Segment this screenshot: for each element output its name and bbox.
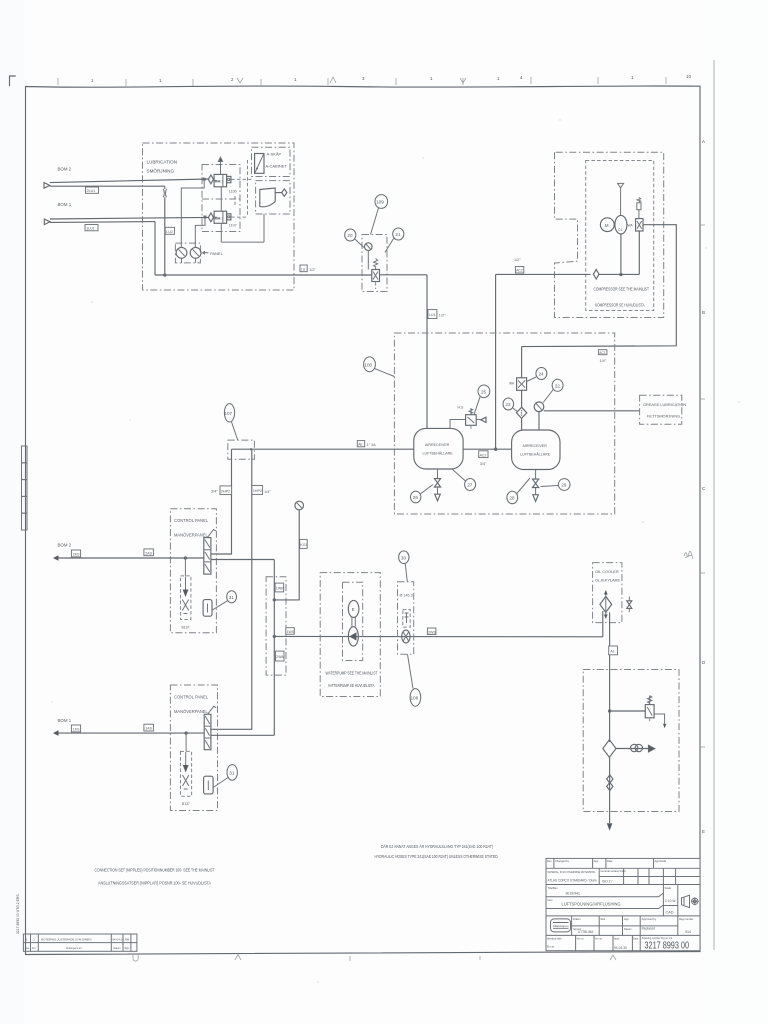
control panel 2 boundary	[170, 685, 217, 811]
orifice inner dashed box	[403, 610, 410, 628]
lubricator 1107	[208, 211, 231, 223]
svg-text:1/2": 1/2"	[439, 314, 446, 318]
left edge fold scale ladder	[22, 446, 28, 530]
pump motor E	[348, 600, 359, 617]
svg-text:Sign: Sign	[125, 947, 130, 950]
feed wire to receiver 1	[254, 448, 413, 450]
svg-text:1100: 1100	[229, 190, 237, 194]
balloon 30	[399, 551, 409, 582]
svg-text:LUFTBEHÅLLARE: LUFTBEHÅLLARE	[520, 452, 551, 457]
svg-text:1/2": 1/2"	[309, 268, 316, 272]
svg-text:Date: Date	[607, 859, 613, 863]
atlas copco logo	[551, 919, 571, 932]
vent mark X	[218, 157, 222, 174]
svg-text:30: 30	[401, 555, 407, 560]
svg-text:AIRRECEIVER: AIRRECEIVER	[523, 444, 548, 448]
svg-text:LUBRICATION: LUBRICATION	[147, 160, 178, 165]
svg-text:Replaced: Replaced	[642, 927, 656, 931]
svg-text:OIL COOLER: OIL COOLER	[595, 569, 619, 574]
safety valve	[637, 198, 641, 219]
svg-text:10: 10	[686, 74, 692, 79]
svg-text:KG1: KG1	[300, 543, 307, 547]
hand valve CP2	[204, 706, 216, 749]
CP2 valve to WA riser	[211, 734, 274, 736]
svg-text:Date: Date	[633, 937, 639, 940]
water pump text	[326, 671, 378, 689]
label 1100	[229, 190, 237, 194]
BOM 2 wire pair	[50, 179, 209, 186]
svg-text:AIRRECEIVER: AIRRECEIVER	[425, 443, 450, 447]
discharge valve WA	[628, 219, 644, 231]
CP2 filter drop	[185, 733, 187, 751]
svg-text:A-CABINET: A-CABINET	[266, 164, 288, 169]
junction box 107	[228, 440, 255, 459]
svg-text:Identical with: Identical with	[547, 937, 562, 940]
lubricator sub-box	[202, 165, 240, 232]
BOM 1 supply arrow	[44, 202, 71, 225]
title row 1 headers	[547, 859, 667, 863]
svg-text:Ø 145,3: Ø 145,3	[400, 594, 413, 598]
svg-text:31: 31	[229, 595, 235, 600]
svg-text:CAD: CAD	[666, 910, 674, 914]
svg-text:24: 24	[539, 372, 545, 377]
A-cabinet box	[252, 147, 291, 176]
balloon 27	[452, 469, 476, 491]
compressor text	[594, 287, 650, 308]
svg-text:WA: WA	[509, 382, 515, 386]
svg-text:Title/Ben: Title/Ben	[548, 886, 559, 890]
svg-text:H.S: H.S	[458, 406, 465, 410]
panel label with arrow	[203, 251, 224, 256]
balloon 100	[364, 357, 395, 377]
label B137	[182, 626, 190, 630]
inline filter 23	[516, 407, 526, 430]
orifice meter	[402, 630, 410, 643]
svg-text:A1: A1	[610, 650, 614, 654]
number row headers	[547, 937, 639, 948]
balloon 28	[507, 478, 530, 504]
water pump wire	[274, 635, 603, 637]
svg-text:MANÖVERPANEL: MANÖVERPANEL	[174, 709, 209, 714]
svg-text:1/4": 1/4"	[600, 359, 607, 363]
BOM 2 outlet arrow	[53, 543, 72, 561]
svg-text:Res: Res	[601, 917, 606, 921]
svg-text:Rev: Rev	[547, 859, 552, 863]
svg-text:Datum: Datum	[114, 947, 121, 950]
svg-text:Ers av: Ers av	[547, 945, 555, 948]
svg-text:B137: B137	[182, 626, 190, 630]
label 1KS	[71, 725, 80, 732]
intake funnel	[618, 183, 624, 215]
relief valve branch	[609, 710, 646, 712]
connection set note text	[95, 868, 215, 886]
svg-text:B137: B137	[182, 802, 190, 806]
svg-text:A: A	[702, 139, 705, 144]
label 1WR	[275, 583, 284, 592]
orifice boundary box	[398, 582, 414, 655]
svg-text:BOM 2: BOM 2	[58, 167, 72, 172]
svg-text:1107: 1107	[229, 224, 237, 228]
svg-text:Drawing number Fig no 1/1: Drawing number Fig no 1/1	[642, 937, 673, 940]
svg-text:AC2: AC2	[516, 269, 523, 273]
riser to air receiver 1	[426, 275, 428, 429]
balloon 21	[385, 228, 404, 253]
svg-text:9015/941: 9015/941	[566, 892, 581, 896]
svg-text:3217 8993 00 UTG.2 ERS.: 3217 8993 00 UTG.2 ERS.	[16, 893, 20, 934]
lubrication unit boundary box	[143, 143, 295, 290]
svg-text:Scale: Scale	[665, 886, 672, 890]
svg-text:29: 29	[561, 483, 567, 488]
balloon 23	[503, 398, 517, 411]
receiver assembly boundary box 100	[394, 333, 614, 514]
accessory A CP2	[204, 776, 214, 794]
dashed links to cabinet	[231, 160, 251, 217]
receiver 2 drain valve	[533, 470, 539, 502]
balloon 20	[345, 229, 364, 248]
control panel 1 boundary	[170, 509, 216, 633]
unloader valve on receiver 1	[450, 409, 486, 431]
svg-text:AC1: AC1	[599, 351, 606, 355]
svg-text:2WS: 2WS	[428, 630, 436, 634]
svg-text:AtlasCopco: AtlasCopco	[553, 924, 569, 928]
svg-text:2KS: 2KS	[73, 553, 80, 557]
svg-text:RM: RM	[125, 938, 130, 942]
drawing frame border	[26, 60, 715, 955]
svg-text:COMPRESSOR SEE THE MAINLIST: COMPRESSOR SEE THE MAINLIST	[594, 287, 650, 292]
bottom edge ticks and marks	[133, 955, 616, 962]
left edge rotated registry text	[16, 893, 20, 934]
compressor inner dashed box	[586, 161, 654, 311]
svg-text:CONTROL PANEL: CONTROL PANEL	[174, 518, 209, 523]
wire to BOM 2	[59, 557, 204, 559]
svg-text:2HP2: 2HP2	[221, 489, 230, 493]
CP1 filter drop	[184, 558, 186, 576]
balloon 31 CP2	[213, 765, 237, 788]
cooler riser from pump line	[602, 611, 604, 637]
svg-text:21: 21	[395, 232, 401, 237]
svg-text:E: E	[352, 607, 355, 612]
name row texts	[573, 917, 694, 931]
drop to control panel 2	[211, 449, 252, 729]
svg-text:ISO 2 /: ISO 2 /	[602, 879, 612, 883]
compressor suction wire	[496, 273, 591, 275]
CP1 valve to WR riser	[211, 559, 274, 561]
label 2KS	[71, 550, 80, 557]
hand valve CP1	[204, 530, 216, 575]
water pump	[348, 627, 358, 646]
svg-text:109: 109	[376, 200, 384, 205]
water pump inner box	[343, 582, 363, 660]
svg-text:1LU1: 1LU1	[86, 227, 95, 231]
svg-text:AC3: AC3	[480, 453, 487, 457]
svg-text:General surface finish: General surface finish	[601, 869, 627, 873]
panel gauges box	[175, 243, 201, 263]
bottom outlet arrow	[607, 823, 613, 830]
svg-text:LU: LU	[301, 267, 306, 271]
water pump boundary box	[320, 573, 380, 697]
balloon 109	[371, 195, 388, 235]
svg-text:25: 25	[481, 389, 487, 394]
svg-text:GREASE LUBRICATION: GREASE LUBRICATION	[643, 402, 686, 407]
lubrication label	[147, 160, 178, 174]
CP1 filter dashed box	[181, 576, 191, 620]
pressure gauge KG1	[274, 501, 303, 600]
svg-text:2AS: 2AS	[145, 551, 152, 555]
receiver 2 inlet valve 24	[509, 378, 527, 391]
svg-text:Inv no: Inv no	[595, 937, 602, 940]
material cell	[548, 868, 600, 884]
WR distribution boundary box	[266, 577, 286, 675]
wire to BOM 1	[59, 732, 205, 734]
number row cells	[576, 935, 641, 950]
lubricator 1100	[208, 174, 231, 186]
svg-text:100: 100	[364, 362, 372, 367]
regulator valve	[372, 259, 380, 290]
motor M1	[600, 218, 615, 232]
top edge zone numbers	[91, 74, 692, 83]
drop wire from BOM1 pair	[154, 222, 156, 275]
svg-text:Inv no: Inv no	[577, 937, 584, 940]
svg-text:WATERPUMP SEE THE MAINLIST: WATERPUMP SEE THE MAINLIST	[326, 671, 378, 676]
svg-text:CONTROL PANEL: CONTROL PANEL	[174, 695, 209, 700]
corner crop mark top-left	[10, 76, 16, 86]
balloon 31 CP1	[212, 591, 237, 611]
svg-text:BOM 1: BOM 1	[58, 202, 72, 207]
label 2AS	[144, 549, 154, 556]
balloon 108	[408, 654, 421, 706]
cooler outlet drop	[609, 612, 611, 742]
gauge risers	[221, 187, 264, 242]
shutoff double diamond	[607, 775, 613, 791]
svg-text:SMÖRJNING: SMÖRJNING	[147, 168, 175, 174]
drawing number	[642, 937, 689, 952]
svg-text:3/4": 3/4"	[480, 462, 487, 466]
svg-text:26: 26	[413, 495, 419, 500]
svg-text:BOM 2: BOM 2	[58, 543, 72, 548]
main air wire to regulator	[155, 274, 372, 276]
svg-text:22: 22	[555, 383, 561, 388]
svg-text:20: 20	[347, 233, 353, 238]
compressor outlet run	[522, 225, 677, 347]
svg-text:B: B	[702, 310, 705, 315]
air receiver 1	[414, 428, 463, 469]
regulator boundary box	[362, 235, 387, 292]
svg-text:M: M	[605, 223, 609, 228]
label AT1	[609, 646, 618, 655]
hose note text	[375, 844, 499, 859]
svg-text:2LU1: 2LU1	[87, 189, 96, 193]
relief valve	[645, 696, 666, 729]
balloon 24	[527, 368, 547, 382]
svg-text:PANEL: PANEL	[210, 251, 224, 256]
drop to control panel 1	[211, 449, 232, 554]
compressor boundary box with notch	[555, 152, 664, 317]
oil cooler boundary box	[593, 563, 622, 623]
label LU1 1/2 inch	[428, 310, 446, 319]
svg-text:Appr: Appr	[614, 937, 619, 940]
wire gauge to grease lubrication	[544, 410, 640, 412]
balloon 22	[543, 379, 563, 402]
heat exchanger diamond	[600, 590, 612, 619]
svg-text:914: 914	[685, 930, 691, 934]
grease lubrication box	[640, 395, 687, 424]
label KG1	[300, 539, 308, 548]
top fold marks	[237, 77, 466, 83]
check valve diamond lower	[603, 740, 616, 758]
label 1HP2 1/4 inch	[252, 486, 272, 495]
compressor drop pipe	[620, 234, 622, 276]
pencil scribble	[684, 551, 693, 559]
svg-text:1:10 W: 1:10 W	[665, 899, 676, 903]
svg-text:1HP2: 1HP2	[253, 489, 262, 493]
label AC1 1/4 inch	[598, 350, 607, 363]
svg-text:94-04-30: 94-04-30	[614, 946, 627, 950]
svg-text:1/4": 1/4"	[264, 490, 271, 494]
svg-text:Ant: Ant	[32, 947, 36, 950]
svg-text:OLJEKYLARE: OLJEKYLARE	[595, 578, 620, 583]
label 1107	[229, 224, 237, 228]
svg-text:1" 1A: 1" 1A	[367, 443, 377, 447]
svg-text:C1: C1	[618, 228, 622, 232]
label 1AS	[144, 724, 154, 731]
BOM 2 supply arrow	[44, 167, 72, 189]
svg-text:MANÖVERPANEL: MANÖVERPANEL	[174, 533, 209, 538]
CP2 filter dashed box	[181, 751, 192, 796]
lower hydraulic boundary box	[583, 670, 679, 812]
WR riser	[273, 560, 275, 736]
svg-text:94-04-26: 94-04-26	[112, 938, 124, 942]
name row cells	[572, 916, 678, 936]
svg-text:KOMPRESSOR SE HUVUDLISTA: KOMPRESSOR SE HUVUDLISTA	[595, 303, 645, 308]
wire check valve to discharge valve	[599, 231, 639, 274]
scale cells	[663, 885, 677, 916]
svg-text:3/4": 3/4"	[211, 489, 218, 493]
title block outline	[546, 858, 700, 950]
svg-text:VATTENPUMP SE HUVUDLISTA: VATTENPUMP SE HUVUDLISTA	[328, 683, 375, 688]
regulator gauge	[365, 243, 373, 270]
main drop continue	[609, 757, 611, 823]
BOM 1 outlet arrow	[53, 718, 72, 736]
label AC2 1/2 inch	[514, 258, 524, 273]
balloon 26	[411, 485, 434, 503]
label 2HP2 3/4 inch	[211, 486, 232, 495]
pump shaft	[352, 618, 355, 627]
drop wire from BOM2 pair	[164, 186, 166, 275]
svg-text:27: 27	[467, 483, 473, 488]
label 2WS	[427, 628, 436, 635]
svg-text:Approved by: Approved by	[642, 917, 657, 921]
air receiver 2	[512, 430, 560, 470]
label 2LU1	[86, 187, 99, 193]
svg-text:LU1: LU1	[429, 313, 435, 317]
pressure gauge 22	[534, 402, 544, 430]
svg-text:ANSLUTNINGSSATSER (NIPPLAR) PO: ANSLUTNINGSSATSER (NIPPLAR) POSNR.100- S…	[98, 881, 211, 886]
svg-text:1/2": 1/2"	[514, 258, 521, 262]
hose break symbol	[163, 189, 166, 197]
svg-text:Drawn: Drawn	[573, 917, 581, 921]
wire regulator to tank riser	[380, 274, 428, 276]
compressor ellipse C1	[615, 215, 627, 234]
oil reservoir box	[256, 181, 290, 214]
label B137 CP2	[182, 802, 190, 806]
label LU2	[165, 227, 174, 234]
surface finish cells	[599, 868, 700, 884]
svg-text:LU2: LU2	[166, 230, 172, 234]
svg-text:FETTSMÖRJNING: FETTSMÖRJNING	[647, 414, 680, 419]
BOM 1 wire pair	[50, 217, 209, 222]
accessory A CP1	[203, 600, 212, 617]
svg-text:31: 31	[229, 771, 235, 776]
svg-text:Ändringens art: Ändringens art	[66, 947, 82, 950]
svg-text:108: 108	[411, 696, 419, 701]
gauge 1 feed from BOM 2 line	[181, 178, 205, 247]
svg-text:Item: Item	[548, 898, 553, 902]
test point branch	[616, 744, 655, 752]
svg-text:A-SKÅP: A-SKÅP	[267, 152, 282, 157]
svg-text:1WR: 1WR	[276, 587, 284, 591]
label H.S	[458, 406, 465, 410]
svg-text:3217 8993 00: 3217 8993 00	[645, 941, 690, 952]
cooler vent valve	[627, 597, 632, 613]
check valve diamond	[593, 269, 599, 279]
gauge 2 feed from BOM 1 line	[195, 216, 206, 247]
svg-text:ATLAS COPCO STANDARD / Diam: ATLAS COPCO STANDARD / Diam	[548, 878, 597, 882]
svg-text:107: 107	[224, 411, 232, 416]
svg-text:NOTERING JUSTERADE SYM DIMEN: NOTERING JUSTERADE SYM DIMEN	[41, 938, 91, 942]
orifice bore label	[400, 594, 413, 598]
label 2WA	[276, 651, 285, 661]
wire AC1 down to valve 24	[521, 347, 523, 408]
title name cell	[546, 886, 663, 897]
balloon 29	[541, 479, 571, 491]
drawing title	[546, 898, 663, 909]
drop from compressor suction into receiver manifold	[495, 274, 497, 449]
balloon 25	[474, 385, 490, 415]
svg-text:1AS: 1AS	[145, 727, 152, 731]
svg-text:1WS: 1WS	[287, 630, 295, 634]
svg-text:LUFTBEHÅLLARE: LUFTBEHÅLLARE	[423, 451, 454, 456]
svg-text:App/Godk: App/Godk	[655, 859, 667, 863]
svg-text:CONNECTION SET (NIPPLES) POSIT: CONNECTION SET (NIPPLES) POSITIONNUMBER …	[95, 868, 215, 873]
top edge zone ticks	[58, 77, 666, 86]
svg-text:MATERIAL, IF NO OTHERWISE NOTE: MATERIAL, IF NO OTHERWISE NOTED/MTRL	[548, 870, 596, 874]
svg-text:E: E	[702, 829, 705, 834]
svg-text:1KS: 1KS	[73, 728, 80, 732]
label 1WS	[286, 628, 295, 635]
svg-text:Reg number: Reg number	[679, 917, 693, 921]
svg-text:23: 23	[505, 402, 511, 407]
label AE1 1 inch	[357, 441, 376, 448]
title row 1 cells	[554, 858, 654, 868]
svg-text:28: 28	[509, 496, 515, 501]
label 1LU1	[85, 225, 98, 231]
svg-text:App: App	[594, 859, 599, 863]
svg-text:WA: WA	[628, 224, 634, 228]
label LU3 1/2 inch	[300, 265, 316, 272]
svg-text:BOM 1: BOM 1	[58, 718, 72, 723]
right edge zone letters	[702, 139, 706, 834]
svg-text:LUFTSPOLNING/AIRFLUSHING: LUFTSPOLNING/AIRFLUSHING	[562, 902, 621, 907]
svg-text:Changed by: Changed by	[555, 859, 570, 863]
label AC3 3/4 inch	[479, 451, 488, 466]
projection symbol	[682, 895, 699, 907]
wire between receivers	[463, 448, 512, 450]
revision table	[23, 934, 136, 951]
svg-text:HYDRAULIC HOSES TYPE 241(SAE 1: HYDRAULIC HOSES TYPE 241(SAE 100 R2AT) U…	[375, 854, 499, 859]
receiver 1 drain valve	[434, 469, 440, 501]
svg-text:UTTBL/BA: UTTBL/BA	[578, 930, 594, 934]
svg-text:Datum: Datum	[624, 927, 632, 931]
